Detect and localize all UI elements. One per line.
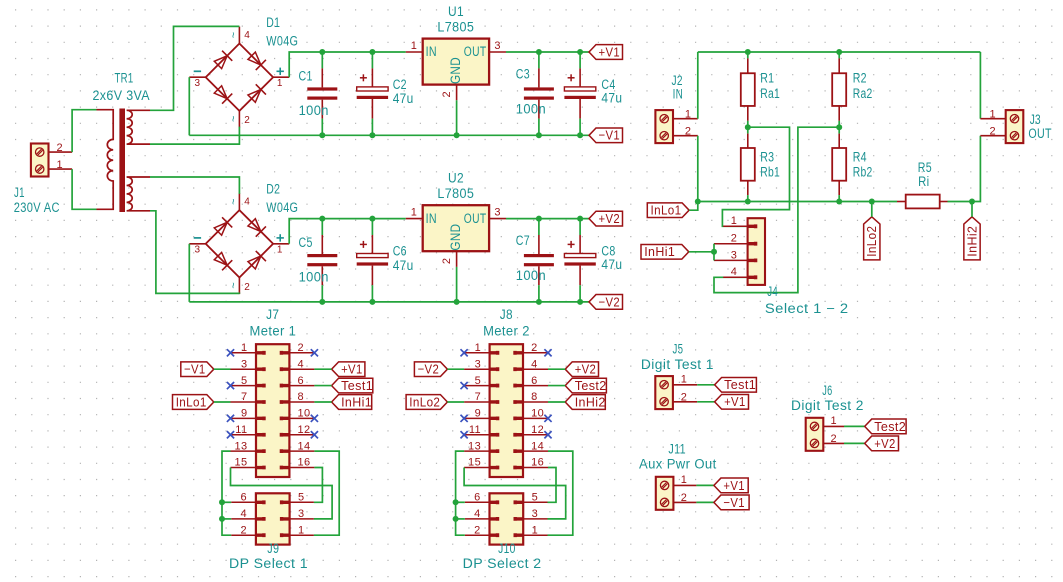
svg-text:+V2: +V2 — [599, 211, 621, 226]
svg-text:J9: J9 — [267, 541, 279, 556]
svg-text:D2: D2 — [266, 181, 280, 196]
J4 pin 2 lead — [714, 243, 748, 245]
wire J8 pin16 to J10 pin5 — [548, 468, 557, 503]
svg-text:Rb2: Rb2 — [853, 164, 873, 179]
svg-text:47u: 47u — [601, 90, 622, 105]
svg-text:100n: 100n — [516, 268, 546, 283]
connector J2 — [655, 110, 673, 143]
svg-text:11: 11 — [235, 424, 247, 436]
wire branch to J9 pin4 — [222, 518, 231, 520]
svg-text:~: ~ — [228, 282, 240, 289]
wire branch to J10 pin4 — [456, 518, 465, 520]
global label +V2 — [565, 362, 598, 377]
svg-text:2: 2 — [244, 282, 250, 293]
svg-text:1: 1 — [475, 342, 482, 354]
junction R1/R3 node — [745, 124, 751, 130]
junction J9 pin4 — [219, 516, 225, 522]
svg-text:14: 14 — [531, 440, 544, 452]
svg-text:2: 2 — [56, 142, 63, 154]
svg-text:6: 6 — [240, 492, 247, 504]
J8 pin leads — [464, 352, 490, 354]
svg-text:Ra2: Ra2 — [853, 86, 873, 101]
wire U2 OUT to +V2 — [506, 218, 589, 220]
svg-text:R1: R1 — [760, 70, 774, 85]
svg-text:Test1: Test1 — [724, 377, 756, 392]
svg-text:47u: 47u — [393, 91, 414, 106]
svg-text:−V1: −V1 — [599, 128, 621, 143]
svg-text:1: 1 — [731, 215, 738, 227]
junction C5 top — [319, 216, 325, 222]
svg-text:+V1: +V1 — [341, 362, 363, 377]
svg-text:4: 4 — [298, 358, 305, 370]
svg-text:Ra1: Ra1 — [760, 86, 780, 101]
svg-text:2: 2 — [731, 233, 738, 245]
junction C7 top — [536, 216, 542, 222]
svg-text:InHi2: InHi2 — [575, 394, 606, 409]
svg-text:+V1: +V1 — [724, 394, 746, 409]
svg-text:InHi2: InHi2 — [964, 226, 979, 257]
global label InLo2 — [864, 217, 880, 260]
wire TR1 sec1 top to D1 pin4 — [150, 26, 239, 110]
J6 pin 1 lead — [823, 425, 844, 427]
global label +V1 — [589, 45, 623, 60]
global label Test1 — [332, 378, 373, 393]
junction InHi2 node — [969, 199, 975, 205]
U1 pin 3 — [489, 51, 506, 53]
svg-text:J5: J5 — [673, 341, 684, 356]
svg-text:TR1: TR1 — [115, 71, 134, 86]
svg-text:InLo2: InLo2 — [409, 394, 440, 409]
global label &#8722;V2 — [414, 362, 447, 377]
wire InHi2 stub — [971, 202, 973, 217]
global label Test2 — [565, 378, 606, 393]
svg-text:1: 1 — [989, 108, 996, 120]
wire J4 pins 2-3 tie — [713, 244, 715, 261]
regulator U2 — [423, 205, 489, 251]
wire TR1 sec1 bottom to D1 pin2 — [150, 127, 239, 145]
svg-text:C1: C1 — [299, 68, 313, 83]
svg-text:Digit Test 2: Digit Test 2 — [791, 398, 864, 413]
svg-text:C6: C6 — [393, 243, 407, 258]
svg-text:14: 14 — [298, 440, 311, 452]
svg-text:12: 12 — [298, 424, 311, 436]
svg-text:4: 4 — [474, 508, 481, 520]
capacitor C6 — [371, 219, 373, 235]
svg-text:11: 11 — [469, 424, 481, 436]
connector J6 — [806, 418, 824, 451]
svg-text:GND: GND — [448, 57, 463, 84]
junction R3 bottom — [745, 199, 751, 205]
svg-text:R3: R3 — [760, 150, 774, 165]
wire R1/R3 node to J4 pin1 — [722, 127, 789, 226]
svg-text:DP Select 2: DP Select 2 — [463, 556, 542, 571]
junction C2 bottom — [369, 132, 375, 138]
resistor R3 — [747, 127, 749, 133]
wire J7 pin4 to +V1 — [314, 368, 331, 370]
junction InLo2 tap — [869, 199, 875, 205]
J7 pin leads — [231, 352, 257, 354]
junction C7 bottom — [536, 299, 542, 305]
svg-text:2: 2 — [681, 391, 688, 403]
capacitor C8 — [579, 219, 581, 235]
D2 plus mark — [277, 237, 284, 239]
J9 pin leads — [231, 501, 256, 503]
svg-text:OUT: OUT — [464, 44, 487, 59]
capacitor C7 — [538, 219, 540, 235]
junction C4 bottom — [577, 132, 583, 138]
global label Test2 (J6) — [865, 419, 906, 434]
wire R2/R4 node to J4 pin4 — [714, 127, 839, 292]
svg-text:10: 10 — [298, 408, 311, 420]
wire J11 pin1 to +V1 — [696, 484, 714, 486]
svg-text:1: 1 — [241, 342, 248, 354]
svg-text:13: 13 — [234, 440, 247, 452]
svg-text:2: 2 — [244, 115, 250, 126]
global label InHi1 — [641, 244, 689, 259]
svg-text:1: 1 — [277, 78, 283, 89]
J5 pin 2 lead — [673, 401, 697, 403]
wire J2 pin1 to top rail — [697, 52, 699, 119]
wire J6 pin1 to Test2 — [844, 425, 865, 427]
svg-text:4: 4 — [244, 196, 250, 207]
wire InLo1 to J7 pin7 — [214, 401, 231, 403]
D2 minus mark — [194, 237, 201, 239]
svg-text:Rb1: Rb1 — [760, 164, 780, 179]
global label &#8722;V1 — [589, 128, 623, 143]
J6 pin 2 lead — [823, 442, 844, 444]
J8 no-connect marks — [461, 349, 468, 356]
svg-text:R2: R2 — [853, 70, 867, 85]
svg-text:100n: 100n — [299, 270, 329, 285]
svg-text:Test1: Test1 — [341, 378, 373, 393]
svg-text:6: 6 — [298, 375, 305, 387]
svg-text:3: 3 — [475, 358, 482, 370]
svg-text:Test2: Test2 — [874, 419, 906, 434]
global label &#8722;V1 — [181, 362, 214, 377]
svg-text:7: 7 — [475, 391, 482, 403]
junction J10 pin4 — [453, 516, 459, 522]
svg-text:Digit Test 1: Digit Test 1 — [641, 357, 714, 372]
svg-text:InHi1: InHi1 — [341, 394, 372, 409]
resistor R1 — [747, 52, 749, 58]
svg-text:5: 5 — [532, 492, 539, 504]
svg-text:Select 1 − 2: Select 1 − 2 — [765, 301, 849, 316]
J11 pin 1 lead — [673, 484, 696, 486]
svg-text:R4: R4 — [853, 150, 867, 165]
global label InHi2 — [964, 217, 980, 260]
svg-text:2: 2 — [441, 258, 453, 265]
junction J2 pin2 / InLo1 — [695, 199, 701, 205]
connector J9 — [256, 493, 290, 544]
svg-text:2: 2 — [831, 433, 838, 445]
svg-text:3: 3 — [532, 508, 539, 520]
svg-text:J8: J8 — [500, 307, 513, 322]
svg-text:+V1: +V1 — [723, 478, 745, 493]
svg-text:J3: J3 — [1030, 112, 1041, 127]
connector J11 — [656, 477, 674, 510]
wire &#8722;V1 to J7 pin3 — [214, 368, 231, 370]
svg-text:6: 6 — [474, 492, 481, 504]
svg-text:C2: C2 — [393, 77, 407, 92]
J11 pin 2 lead — [673, 501, 696, 503]
svg-text:L7805: L7805 — [437, 186, 474, 201]
junction C8 top — [577, 216, 583, 222]
wire branch to J9 pin6 — [222, 501, 231, 503]
svg-text:IN: IN — [426, 44, 437, 59]
junction C1 top — [319, 49, 325, 55]
capacitor C2 — [371, 52, 373, 68]
svg-text:8: 8 — [298, 391, 305, 403]
global label InHi1 — [332, 395, 372, 410]
transformer TR1 — [119, 109, 125, 213]
svg-text:IN: IN — [426, 211, 437, 226]
wire J5 pin2 to +V1 — [697, 401, 714, 403]
junction C1 bottom — [319, 132, 325, 138]
global label InHi2 — [565, 395, 605, 410]
svg-text:2: 2 — [685, 125, 692, 137]
connector J10 — [490, 493, 524, 544]
negative rail &#8722;V2 — [189, 301, 589, 303]
wire InHi2 node to J3 pin2 — [972, 136, 980, 202]
wire J7 pin6 to Test1 — [314, 385, 331, 387]
negative rail &#8722;V1 — [189, 134, 589, 136]
J4 pin 4 lead — [723, 276, 747, 278]
wire J1 pin2 to TR1 primary top — [72, 110, 96, 152]
svg-text:W04G: W04G — [266, 33, 298, 48]
U1 pin 2 — [456, 85, 458, 101]
wire J8 pin6 to Test2 — [548, 385, 565, 387]
svg-text:4: 4 — [731, 266, 738, 278]
svg-text:W04G: W04G — [266, 200, 298, 215]
junction C3 top — [536, 49, 542, 55]
svg-text:5: 5 — [475, 375, 482, 387]
InLo rail — [698, 201, 872, 203]
wire D2 plus to rail — [289, 219, 406, 244]
svg-text:J10: J10 — [498, 541, 516, 556]
wire J7 pin13 to J9 pins 6,4,2 — [222, 451, 231, 535]
wire R5 to InHi2 node — [948, 201, 973, 203]
wire J7 pin8 to InHi1 — [314, 401, 331, 403]
svg-text:3: 3 — [195, 78, 201, 89]
junction C6 top — [369, 216, 375, 222]
J3 pin 2 lead — [980, 135, 1005, 137]
svg-text:−V2: −V2 — [599, 294, 621, 309]
svg-text:DP Select 1: DP Select 1 — [229, 556, 308, 571]
svg-text:C5: C5 — [299, 235, 313, 250]
svg-text:L7805: L7805 — [437, 19, 474, 34]
connector J5 — [655, 376, 673, 409]
wire TR1 sec2 top to D2 pin4 — [150, 177, 239, 194]
svg-text:16: 16 — [298, 457, 311, 469]
global label +V1 (J11) — [714, 478, 748, 493]
svg-text:1: 1 — [681, 374, 688, 386]
svg-text:9: 9 — [475, 408, 482, 420]
svg-text:3: 3 — [195, 245, 201, 256]
svg-text:Ri: Ri — [918, 174, 929, 189]
svg-text:1: 1 — [681, 474, 688, 486]
svg-text:Test2: Test2 — [575, 378, 607, 393]
wire branch to J10 pin6 — [456, 501, 465, 503]
J7 no-connect marks — [227, 349, 234, 356]
svg-text:3: 3 — [494, 206, 501, 218]
J5 pin 1 lead — [673, 384, 697, 386]
svg-text:2: 2 — [474, 524, 481, 536]
wire J6 pin2 to +V2 — [844, 442, 865, 444]
wire J1 pin1 to TR1 primary bottom — [72, 169, 96, 209]
J2 pin 1 lead — [673, 118, 698, 120]
junction C5 bottom — [319, 299, 325, 305]
svg-text:+V1: +V1 — [599, 44, 621, 59]
connector J7 — [256, 344, 289, 477]
J4 pin 1 lead — [723, 225, 747, 227]
svg-text:1: 1 — [56, 159, 63, 171]
svg-text:InLo2: InLo2 — [864, 226, 879, 257]
wire &#8722;V2 to J8 pin3 — [447, 368, 464, 370]
global label Test1 (J5) — [715, 377, 757, 392]
wire J8 pin15 to J10 pin3 — [464, 468, 566, 519]
junction R2 top — [836, 49, 842, 55]
connector J8 — [490, 344, 523, 477]
svg-text:IN: IN — [673, 86, 684, 101]
J10 pin leads — [465, 501, 490, 503]
svg-text:+V2: +V2 — [575, 362, 597, 377]
J4 pin 3 lead — [714, 259, 748, 261]
svg-text:J7: J7 — [266, 307, 279, 322]
svg-text:C7: C7 — [516, 233, 530, 248]
bridge rectifier D1 — [206, 44, 273, 111]
junction R2/R4 node — [836, 124, 842, 130]
wire J7 pin15 to J9 pin3 — [231, 468, 333, 519]
svg-text:100n: 100n — [516, 102, 546, 117]
svg-text:47u: 47u — [393, 258, 414, 273]
svg-text:2: 2 — [531, 342, 538, 354]
wire U1 OUT to +V1 — [506, 51, 589, 53]
svg-text:Aux Pwr Out: Aux Pwr Out — [639, 457, 717, 472]
U1 pin 1 — [406, 51, 423, 53]
svg-text:13: 13 — [468, 440, 481, 452]
D1 minus mark — [194, 70, 201, 72]
svg-text:4: 4 — [531, 358, 538, 370]
svg-text:−V2: −V2 — [418, 362, 440, 377]
capacitor C5 — [321, 219, 323, 235]
wire J8 pin13 to J10 pins 6,4,2 — [456, 451, 465, 535]
svg-text:1: 1 — [685, 108, 692, 120]
svg-text:2: 2 — [441, 91, 453, 98]
svg-text:D1: D1 — [266, 15, 280, 30]
junction J10 pin6 — [453, 499, 459, 505]
resistor R5 — [897, 201, 906, 203]
junction J9 pin6 — [219, 499, 225, 505]
svg-text:+V2: +V2 — [874, 436, 896, 451]
junction C2 top — [369, 49, 375, 55]
global label +V1 — [332, 362, 365, 377]
wire D1 minus to rail — [188, 77, 190, 135]
junction U2 GND — [454, 299, 460, 305]
svg-text:47u: 47u — [601, 257, 622, 272]
global label InLo1 — [173, 395, 214, 410]
svg-text:U2: U2 — [448, 171, 464, 186]
capacitor C1 — [321, 52, 323, 68]
svg-text:1: 1 — [831, 415, 838, 427]
wire InLo2 to J8 pin7 — [447, 401, 464, 403]
wire J7 pin14 to J9 pin1 — [314, 451, 339, 535]
svg-text:16: 16 — [531, 457, 544, 469]
global label &#8722;V2 — [589, 295, 623, 310]
svg-text:R5: R5 — [918, 160, 932, 175]
svg-text:7: 7 — [241, 391, 248, 403]
svg-text:J11: J11 — [668, 442, 686, 457]
global label -V1 (J11) — [714, 495, 749, 510]
wire J8 pin14 to J10 pin1 — [548, 451, 573, 535]
svg-text:InLo1: InLo1 — [651, 203, 682, 218]
resistor R2 — [838, 52, 840, 58]
svg-text:2x6V 3VA: 2x6V 3VA — [93, 88, 151, 103]
svg-text:InLo1: InLo1 — [176, 394, 207, 409]
svg-text:2: 2 — [681, 492, 688, 504]
J1 pin 2 lead — [49, 151, 73, 153]
wire J8 pin8 to InHi2 — [548, 401, 565, 403]
svg-text:GND: GND — [448, 224, 463, 251]
global label +V1 (J5) — [715, 394, 749, 409]
svg-text:1: 1 — [411, 206, 418, 218]
svg-text:10: 10 — [531, 408, 544, 420]
wire J7 pin16 to J9 pin5 — [314, 468, 323, 503]
junction C6 bottom — [369, 299, 375, 305]
U2 pin 2 — [456, 251, 458, 267]
svg-text:OUT: OUT — [1028, 126, 1052, 141]
connector J1 — [31, 144, 49, 177]
svg-text:6: 6 — [531, 375, 538, 387]
junction C4 top — [577, 49, 583, 55]
wire J5 pin1 to Test1 — [697, 384, 714, 386]
connector J3 — [1006, 110, 1024, 143]
global label InLo1 — [647, 203, 689, 218]
svg-text:Meter 2: Meter 2 — [483, 323, 530, 338]
regulator U1 — [423, 39, 489, 85]
svg-text:J4: J4 — [767, 284, 778, 299]
svg-text:5: 5 — [241, 375, 248, 387]
D1 plus mark — [277, 70, 284, 72]
wire InLo2 stub — [871, 202, 873, 217]
svg-text:4: 4 — [244, 30, 250, 41]
wire top rail to J3 pin1 — [979, 52, 981, 119]
wire U1 GND to rail — [456, 100, 458, 135]
svg-text:~: ~ — [228, 115, 240, 122]
resistor R4 — [838, 127, 840, 133]
global label InLo2 — [406, 395, 447, 410]
J1 pin 1 lead — [49, 168, 73, 170]
svg-text:9: 9 — [241, 408, 248, 420]
svg-text:J6: J6 — [822, 383, 832, 398]
svg-text:~: ~ — [228, 198, 240, 205]
svg-text:3: 3 — [241, 358, 248, 370]
svg-text:12: 12 — [531, 424, 544, 436]
svg-text:100n: 100n — [299, 103, 329, 118]
svg-text:U1: U1 — [448, 4, 464, 19]
junction InHi1 node — [711, 249, 717, 255]
wire D1 plus to rail — [289, 52, 406, 77]
global label +V2 — [589, 211, 623, 226]
svg-text:2: 2 — [240, 524, 247, 536]
svg-text:InHi1: InHi1 — [644, 244, 675, 259]
J3 pin 1 lead — [980, 118, 1005, 120]
svg-text:1: 1 — [532, 524, 539, 536]
svg-text:Meter 1: Meter 1 — [250, 323, 297, 338]
svg-text:3: 3 — [494, 40, 501, 52]
wire TR1 sec2 bottom to D2 pin2 — [150, 211, 239, 294]
svg-text:2: 2 — [989, 125, 996, 137]
svg-text:3: 3 — [298, 508, 305, 520]
